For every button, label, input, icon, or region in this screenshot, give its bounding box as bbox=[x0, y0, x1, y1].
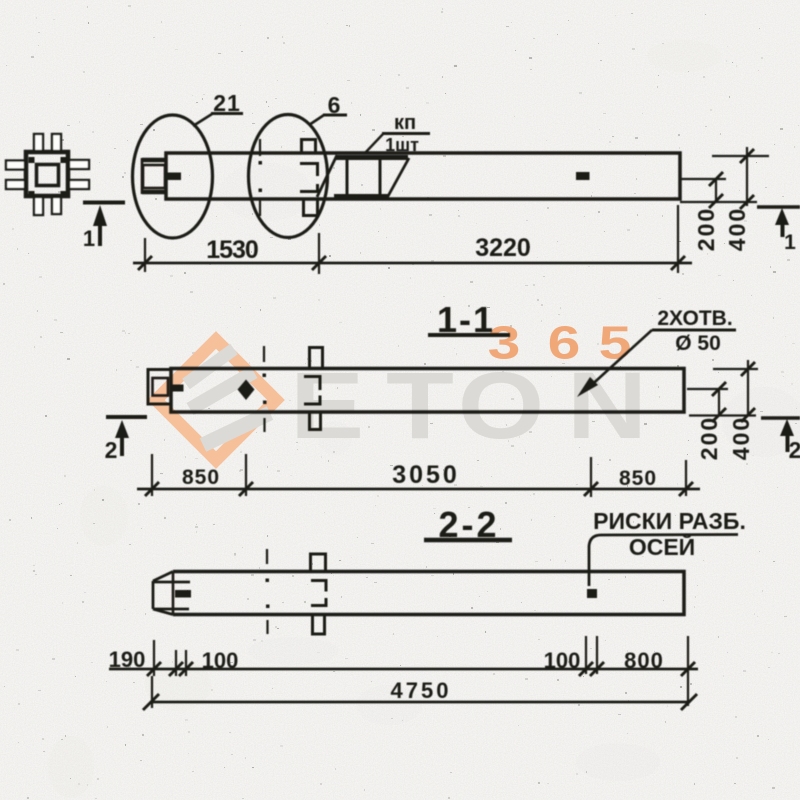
svg-text:100: 100 bbox=[544, 648, 581, 673]
svg-text:3220: 3220 bbox=[475, 234, 531, 262]
axis mark dot 2-2 bbox=[587, 589, 597, 598]
elevation pile left end cap bbox=[142, 158, 166, 194]
svg-text:РИСКИ РАЗБ.: РИСКИ РАЗБ. bbox=[593, 508, 746, 534]
section marker left 1-1 bbox=[105, 417, 147, 463]
weld tick 1-1 bbox=[172, 385, 184, 392]
svg-text:200: 200 bbox=[696, 416, 722, 460]
svg-text:Ø 50: Ø 50 bbox=[675, 332, 721, 355]
section marker right elevation bbox=[757, 207, 800, 254]
svg-text:3050: 3050 bbox=[392, 461, 460, 489]
dimension 400 section 1-1 bbox=[689, 360, 758, 460]
svg-text:800: 800 bbox=[624, 648, 664, 673]
dimension 850 / 3050 / 850 bbox=[137, 454, 700, 497]
label 6 bbox=[309, 92, 347, 125]
dimension 190 / 100 / 100 / 800 bbox=[109, 636, 698, 706]
title 2-2 bbox=[424, 504, 512, 545]
label кп 1шт bbox=[365, 112, 430, 155]
lifting loop section 2-2 bbox=[311, 554, 327, 634]
svg-text:2: 2 bbox=[105, 437, 118, 463]
svg-text:кп: кп bbox=[394, 112, 416, 134]
svg-text:1шт: 1шт bbox=[385, 135, 419, 155]
label riski razb osey bbox=[589, 508, 746, 586]
svg-text:850: 850 bbox=[619, 467, 657, 490]
embedded plate кп bbox=[317, 155, 409, 198]
detail circle 6 bbox=[249, 115, 328, 238]
svg-text:2: 2 bbox=[789, 437, 800, 463]
section 1-1 end cap bbox=[148, 370, 171, 405]
dimension 4750 bbox=[143, 676, 697, 710]
svg-text:ОСЕЙ: ОСЕЙ bbox=[629, 533, 695, 560]
rebar diamond 1-1 bbox=[238, 380, 255, 401]
centerline 2-2 bbox=[266, 549, 270, 634]
watermark text ETON bbox=[290, 352, 647, 459]
pile cross-section symbol bbox=[6, 134, 89, 215]
label 21 bbox=[193, 90, 243, 126]
svg-text:200: 200 bbox=[693, 207, 719, 251]
elevation pile body bbox=[166, 153, 680, 199]
watermark text 365 bbox=[488, 318, 632, 369]
detail circle 21 bbox=[133, 115, 213, 238]
section 1-1 pile body bbox=[171, 369, 684, 413]
svg-text:6: 6 bbox=[548, 318, 581, 369]
svg-text:400: 400 bbox=[728, 416, 754, 460]
svg-text:190: 190 bbox=[109, 647, 146, 672]
dimension 1530 / 3220 bbox=[133, 205, 692, 274]
title 1-1 bbox=[428, 299, 510, 340]
svg-text:400: 400 bbox=[724, 207, 750, 251]
lifting loop section in circle 6 bbox=[300, 140, 318, 216]
section 2-2 pile body bbox=[173, 572, 684, 615]
section 2-2 tip bbox=[153, 572, 190, 615]
centerline 1-1 bbox=[263, 346, 267, 432]
dimension 200 elevation bbox=[681, 172, 726, 251]
black mark on elevation pile bbox=[576, 172, 590, 180]
section marker right 1-1 bbox=[761, 418, 800, 463]
lifting loop section 1-1 bbox=[304, 348, 323, 430]
dimension 400 elevation bbox=[680, 147, 769, 251]
svg-text:1: 1 bbox=[784, 231, 796, 254]
watermark diamond logo bbox=[156, 340, 276, 460]
hole callout 2 holes d50 bbox=[577, 307, 736, 397]
weld tick 2-2 bbox=[175, 590, 191, 598]
svg-text:100: 100 bbox=[202, 648, 239, 673]
centerline circle 6 bbox=[259, 139, 263, 216]
dimension 200 section 1-1 bbox=[687, 382, 728, 460]
section marker left elevation bbox=[83, 203, 125, 252]
svg-text:2ХОТВ.: 2ХОТВ. bbox=[657, 307, 732, 330]
svg-text:5: 5 bbox=[599, 318, 632, 369]
svg-text:1: 1 bbox=[83, 226, 95, 251]
weld tick elevation bbox=[167, 173, 181, 181]
svg-text:1530: 1530 bbox=[206, 236, 258, 264]
svg-text:850: 850 bbox=[182, 466, 220, 489]
svg-text:4750: 4750 bbox=[391, 678, 452, 703]
